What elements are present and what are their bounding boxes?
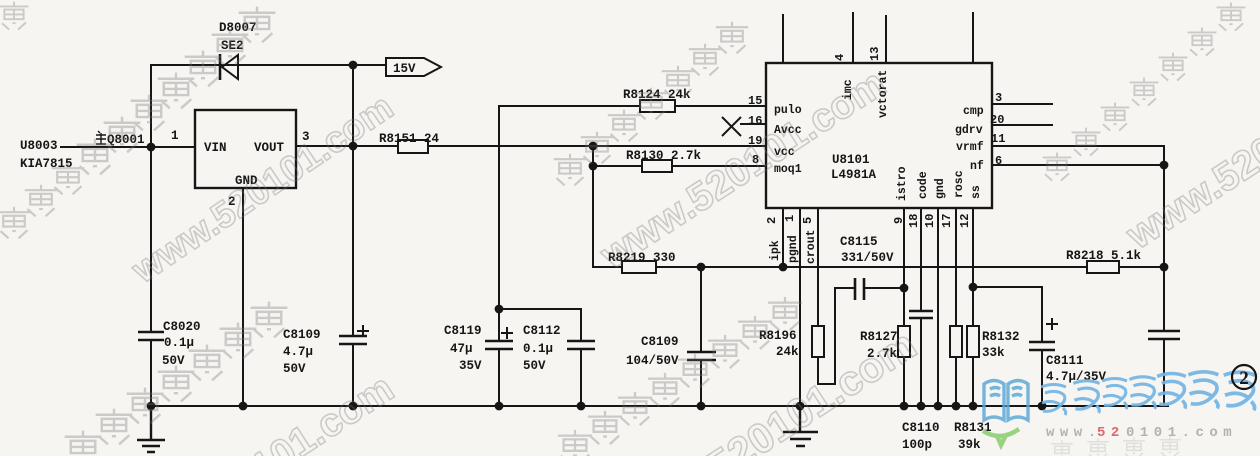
svg-text:0.1µ: 0.1µ xyxy=(523,342,553,356)
wire C8109b drop xyxy=(700,267,702,406)
wire nf pin6 xyxy=(992,164,1164,166)
svg-text:vrmf: vrmf xyxy=(956,141,984,154)
wire code pin18 through C8110 xyxy=(920,208,922,406)
resistor R8127 2.7k xyxy=(860,326,910,361)
svg-text:331/50V: 331/50V xyxy=(841,251,894,265)
logo blue text 家电维修资料网 xyxy=(1041,372,1255,415)
logo book icon xyxy=(984,381,1028,421)
svg-text:0.1µ: 0.1µ xyxy=(164,336,194,350)
svg-text:gdrv: gdrv xyxy=(955,124,983,137)
svg-text:50V: 50V xyxy=(283,362,306,376)
svg-text:35V: 35V xyxy=(459,359,482,373)
svg-text:C8119: C8119 xyxy=(444,324,482,338)
svg-text:18: 18 xyxy=(907,214,921,228)
wire GND pin2 of U8003 down to ground bus xyxy=(242,188,244,406)
svg-text:24k: 24k xyxy=(776,345,799,359)
svg-text:R8124 24k: R8124 24k xyxy=(623,88,691,102)
svg-text:10: 10 xyxy=(923,214,937,228)
svg-text:istro: istro xyxy=(896,166,909,201)
svg-text:code: code xyxy=(917,171,930,199)
svg-text:1: 1 xyxy=(783,215,797,222)
svg-text:20: 20 xyxy=(990,113,1004,127)
svg-text:0101.com: 0101.com xyxy=(1126,425,1237,441)
wire ss node to C8111 xyxy=(973,287,1042,406)
wire 15V rail drop through C8109 xyxy=(352,65,354,406)
wire 15V rail top xyxy=(151,64,386,66)
svg-text:ss: ss xyxy=(970,185,983,199)
svg-text:C8020: C8020 xyxy=(163,320,201,334)
net flag 15V xyxy=(386,58,441,76)
capacitor C8112 0.1u 50V xyxy=(523,324,595,373)
capacitor right rail (unlabeled) xyxy=(1148,331,1180,339)
svg-text:R8218 5.1k: R8218 5.1k xyxy=(1066,249,1142,263)
svg-text:U8101: U8101 xyxy=(832,153,870,167)
wire ipk pin2 xyxy=(782,208,784,267)
no-connect X on pin16 xyxy=(722,117,766,136)
resistor R8131 39k xyxy=(950,326,992,452)
svg-text:C8110: C8110 xyxy=(902,421,940,435)
svg-text:2: 2 xyxy=(1239,368,1249,389)
node 接Q8001 label xyxy=(96,131,145,147)
svg-text:www.: www. xyxy=(1046,425,1102,441)
junction VOUT node xyxy=(349,142,358,151)
svg-text:U8003: U8003 xyxy=(20,139,58,153)
svg-text:4.7µ: 4.7µ xyxy=(283,345,313,359)
junction R8130 node xyxy=(589,162,598,171)
resistor R8124 24k xyxy=(623,88,691,112)
junction C8109b top xyxy=(697,263,706,272)
svg-text:R8130 2.7k: R8130 2.7k xyxy=(626,149,702,163)
svg-text:C8109: C8109 xyxy=(641,335,679,349)
svg-text:nf: nf xyxy=(970,160,984,173)
svg-text:104/50V: 104/50V xyxy=(626,354,679,368)
wire rosc pin17 xyxy=(955,208,957,406)
svg-text:5: 5 xyxy=(801,217,815,224)
junction nf node xyxy=(1160,161,1169,170)
wire gdrv pin20 stub xyxy=(992,124,1052,126)
junction vcc node xyxy=(589,142,598,151)
svg-text:50V: 50V xyxy=(162,354,185,368)
svg-text:15: 15 xyxy=(748,94,762,108)
svg-text:VIN: VIN xyxy=(204,141,227,155)
wire cmp pin3 stub xyxy=(992,103,1052,105)
wire R8130 to moq1 pin8 xyxy=(593,165,766,167)
resistor R8219 330 xyxy=(608,251,676,273)
wire vrmf pin11 to right rail xyxy=(992,146,1164,406)
ground symbol left xyxy=(137,406,165,452)
svg-text:gnd: gnd xyxy=(934,178,947,199)
wire input to VIN xyxy=(61,146,195,148)
capacitor C8020 0.1u 50V xyxy=(138,320,201,368)
svg-text:4: 4 xyxy=(833,54,847,61)
wire gnd pin10 xyxy=(937,208,939,406)
svg-text:52: 52 xyxy=(1097,425,1125,441)
junction C8115 istro node xyxy=(900,284,909,293)
svg-text:11: 11 xyxy=(991,132,1005,146)
wire R8219 to R8218 row xyxy=(593,266,1164,268)
resistor R8132 33k xyxy=(967,326,1020,360)
junction C8119 top xyxy=(495,305,504,314)
svg-text:pgnd: pgnd xyxy=(787,235,800,263)
svg-text:2: 2 xyxy=(765,217,779,224)
wire pgnd pin1 xyxy=(799,208,801,406)
svg-text:rosc: rosc xyxy=(953,170,966,198)
svg-text:13: 13 xyxy=(868,47,882,61)
svg-text:C8109: C8109 xyxy=(283,328,321,342)
svg-text:100p: 100p xyxy=(902,438,932,452)
svg-text:ipk: ipk xyxy=(769,240,782,261)
capacitor C8110 100p xyxy=(902,311,940,452)
regulator U8003 KIA7815 xyxy=(20,110,296,188)
svg-text:C8115: C8115 xyxy=(840,235,878,249)
resistor R8196 24k xyxy=(759,326,824,359)
svg-text:39k: 39k xyxy=(958,438,981,452)
svg-text:1: 1 xyxy=(171,129,179,143)
logo url text xyxy=(1046,425,1237,441)
svg-text:33k: 33k xyxy=(982,346,1005,360)
IC U8101 L4981A xyxy=(766,63,992,208)
svg-text:crout: crout xyxy=(805,229,818,264)
wire vcc node down to R8219 xyxy=(592,146,594,267)
junction ss C8111 node xyxy=(969,283,978,292)
junction 15V rail xyxy=(349,61,358,70)
svg-text:L4981A: L4981A xyxy=(831,168,877,182)
wire ground bus xyxy=(151,405,1168,407)
svg-text:15V: 15V xyxy=(393,62,416,76)
capacitor C8109 4.7u 50V xyxy=(283,325,369,376)
wire left vertical input rail xyxy=(150,65,152,406)
capacitor C8115 331/50V xyxy=(840,235,894,300)
page number circled 2 xyxy=(1232,365,1256,389)
svg-text:12: 12 xyxy=(958,214,972,228)
svg-text:47µ: 47µ xyxy=(450,342,473,356)
wire U8101 top pin lines imc/vctorat xyxy=(783,13,973,63)
wire ss pin12 xyxy=(972,208,974,406)
capacitor C8109 104/50V xyxy=(626,335,716,368)
resistor R8218 5.1k xyxy=(1066,249,1142,273)
wire istro pin9 xyxy=(903,208,905,406)
svg-text:R8151 24: R8151 24 xyxy=(379,132,440,146)
wire C8119 top to C8112 xyxy=(499,309,581,406)
capacitor C8111 4.7u/35V xyxy=(1029,318,1107,384)
capacitor C8119 47u 35V xyxy=(444,324,513,373)
wire pin15 pulo to R8124 and down to C8119 xyxy=(499,106,766,406)
ground symbol pgnd xyxy=(783,406,818,446)
svg-text:17: 17 xyxy=(940,214,954,228)
svg-text:16: 16 xyxy=(748,114,762,128)
svg-text:3: 3 xyxy=(995,91,1002,105)
junction R8218 node xyxy=(1160,263,1169,272)
diode D8007 SE2 xyxy=(219,21,257,80)
wire crout pin5 through R8196 to C8115 xyxy=(818,208,904,384)
junction ipk node xyxy=(779,263,788,272)
svg-text:R8132: R8132 xyxy=(982,330,1020,344)
junction bus dots xyxy=(147,402,156,411)
svg-text:9: 9 xyxy=(892,217,906,224)
svg-text:C8111: C8111 xyxy=(1046,354,1084,368)
svg-text:50V: 50V xyxy=(523,359,546,373)
svg-text:C8112: C8112 xyxy=(523,324,561,338)
resistor R8130 2.7k xyxy=(626,149,702,172)
logo green swoosh xyxy=(983,429,1019,445)
junction input node xyxy=(147,143,156,152)
svg-text:cmp: cmp xyxy=(963,105,984,118)
wire VOUT to vcc pin19 xyxy=(296,145,766,147)
svg-text:6: 6 xyxy=(995,154,1002,168)
resistor R8151 24 xyxy=(379,132,440,153)
